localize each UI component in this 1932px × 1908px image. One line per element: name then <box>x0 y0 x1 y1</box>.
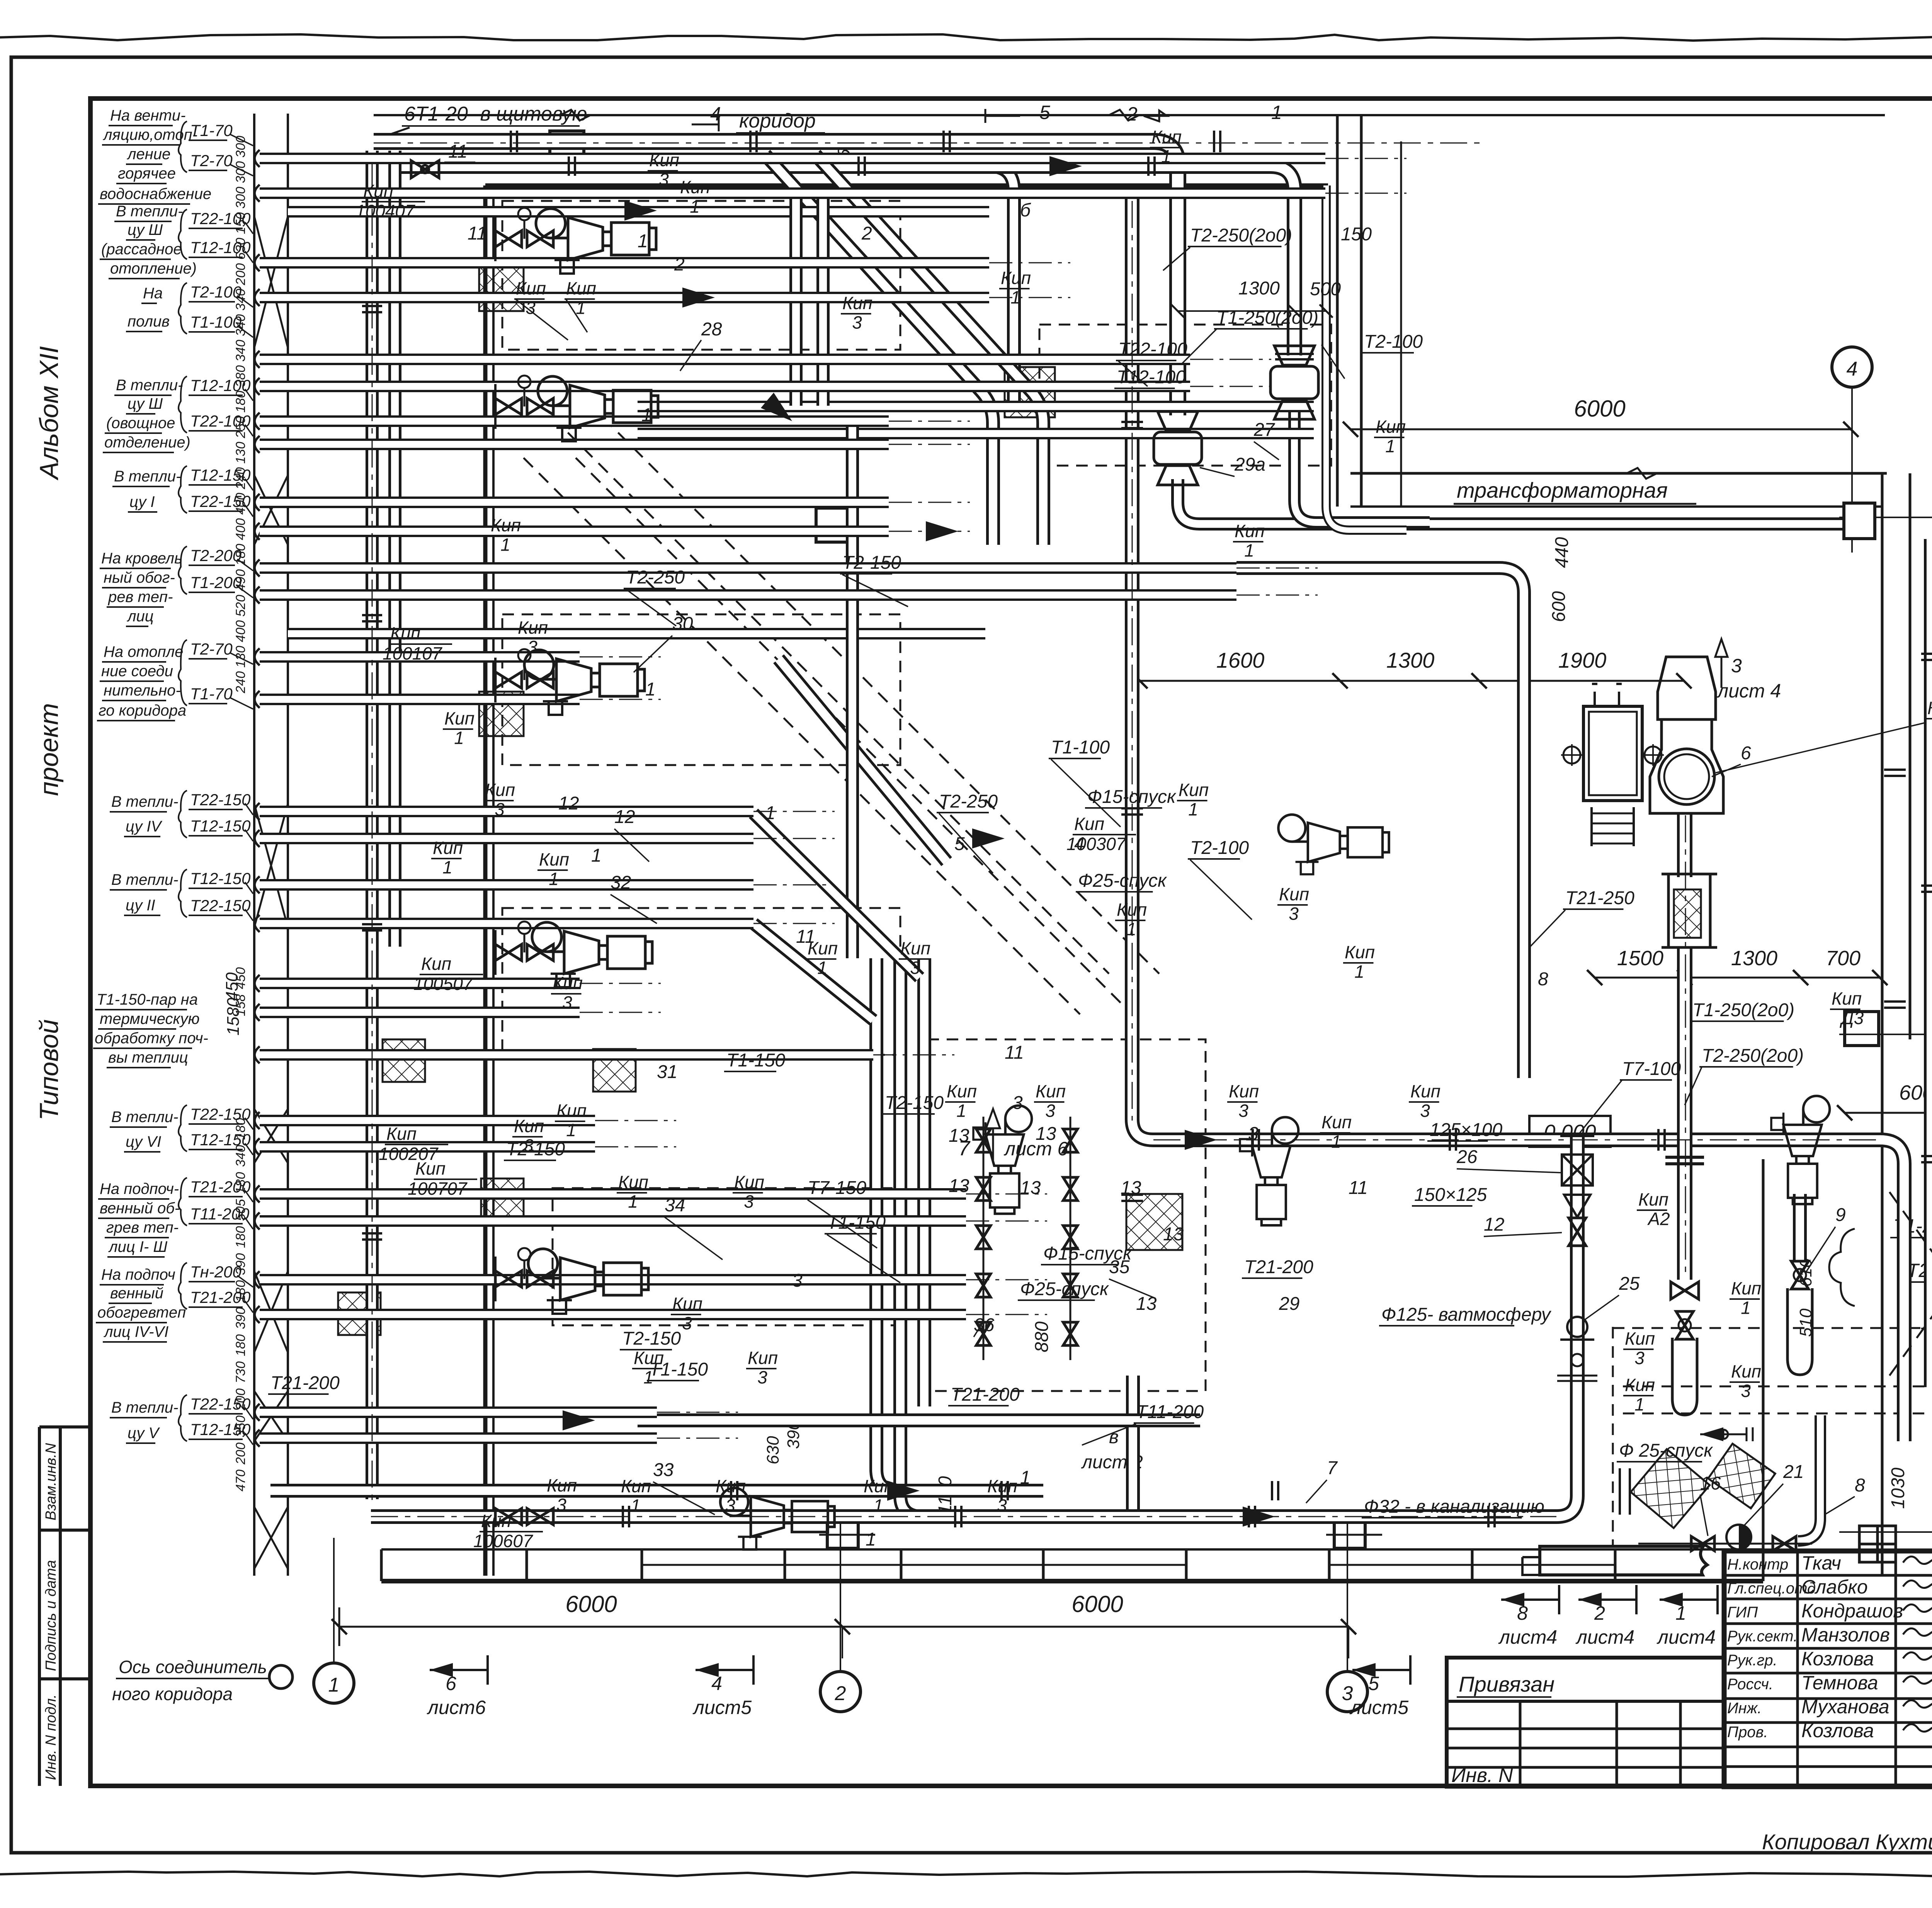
svg-text:1: 1 <box>576 298 586 318</box>
svg-text:Т12-150: Т12-150 <box>190 869 251 888</box>
svg-text:2: 2 <box>674 254 685 275</box>
svg-text:Кип: Кип <box>1036 1081 1066 1101</box>
svg-text:180: 180 <box>233 391 248 413</box>
svg-text:Кип: Кип <box>421 954 451 974</box>
svg-text:Кип: Кип <box>1376 417 1406 437</box>
svg-text:Т1-150-пар на: Т1-150-пар на <box>97 991 198 1008</box>
svg-text:Т7-100: Т7-100 <box>1622 1059 1681 1079</box>
svg-text:1580: 1580 <box>224 998 243 1036</box>
svg-text:Ось соединитель: Ось соединитель <box>119 1657 267 1677</box>
svg-text:отопление): отопление) <box>110 260 197 277</box>
svg-text:340: 340 <box>233 340 248 362</box>
svg-text:Т1-150: Т1-150 <box>649 1359 708 1380</box>
svg-text:Слабко: Слабко <box>1801 1576 1868 1598</box>
svg-text:1: 1 <box>1634 1394 1645 1415</box>
svg-text:Т12-150: Т12-150 <box>190 817 251 835</box>
svg-text:Ф25-спуск: Ф25-спуск <box>1020 1279 1109 1299</box>
svg-text:Манзолов: Манзолов <box>1801 1624 1890 1646</box>
svg-text:Кип: Кип <box>1117 900 1147 920</box>
svg-text:3: 3 <box>910 958 920 978</box>
svg-text:Кип: Кип <box>433 838 463 858</box>
svg-text:Т22-100: Т22-100 <box>1118 339 1187 360</box>
svg-text:горячее: горячее <box>118 165 176 182</box>
svg-text:ляцию,отоп-: ляцию,отоп- <box>103 126 197 143</box>
svg-text:13: 13 <box>949 1126 969 1146</box>
svg-text:3: 3 <box>1420 1101 1430 1121</box>
svg-text:б: б <box>1020 200 1031 221</box>
svg-text:250: 250 <box>233 416 248 439</box>
svg-text:Кип: Кип <box>680 177 710 197</box>
svg-text:880: 880 <box>1032 1321 1052 1352</box>
svg-text:Кип: Кип <box>1345 942 1375 962</box>
svg-text:400: 400 <box>233 620 248 642</box>
svg-text:340: 340 <box>233 314 248 336</box>
svg-text:5: 5 <box>1039 102 1050 123</box>
svg-text:Т12-100: Т12-100 <box>1117 367 1186 388</box>
svg-text:водоснабжение: водоснабжение <box>100 185 211 202</box>
svg-text:35: 35 <box>1109 1257 1130 1277</box>
svg-text:Кип: Кип <box>390 623 420 643</box>
svg-text:12: 12 <box>614 807 635 827</box>
svg-text:Козлова: Козлова <box>1801 1648 1874 1670</box>
svg-text:3: 3 <box>1238 1101 1248 1121</box>
svg-text:125×100: 125×100 <box>1430 1120 1503 1140</box>
svg-text:400: 400 <box>233 493 248 515</box>
svg-text:Ф15-спуск: Ф15-спуск <box>1087 787 1177 807</box>
svg-text:Кип: Кип <box>1832 988 1862 1008</box>
svg-text:Кип: Кип <box>672 1294 702 1314</box>
svg-text:1: 1 <box>1161 146 1171 167</box>
svg-text:100107: 100107 <box>383 643 442 663</box>
svg-text:1: 1 <box>765 803 776 823</box>
svg-text:лист 4: лист 4 <box>1716 680 1781 702</box>
svg-text:Кондрашов: Кондрашов <box>1801 1600 1903 1622</box>
svg-text:Инж.: Инж. <box>1727 1700 1762 1717</box>
svg-text:4: 4 <box>711 1673 722 1694</box>
svg-text:13: 13 <box>1036 1124 1056 1144</box>
svg-text:1: 1 <box>1010 287 1020 308</box>
svg-text:Т2-150: Т2-150 <box>506 1139 565 1160</box>
svg-text:3: 3 <box>997 1496 1007 1516</box>
svg-text:240: 240 <box>233 671 248 694</box>
svg-text:440: 440 <box>1552 537 1572 568</box>
svg-text:31: 31 <box>657 1062 677 1082</box>
svg-text:Кип: Кип <box>947 1081 977 1101</box>
svg-text:11: 11 <box>1005 1042 1024 1063</box>
svg-text:3: 3 <box>556 1495 566 1515</box>
svg-text:ление: ление <box>127 146 170 163</box>
svg-text:Т21-200: Т21-200 <box>1244 1257 1313 1277</box>
svg-text:3: 3 <box>1012 1093 1023 1113</box>
svg-text:Кип: Кип <box>547 1475 577 1495</box>
svg-text:180: 180 <box>233 1280 248 1302</box>
svg-text:лиц IV-VI: лиц IV-VI <box>104 1323 168 1340</box>
svg-text:1: 1 <box>442 857 452 877</box>
svg-text:300: 300 <box>233 136 248 158</box>
svg-text:лист4: лист4 <box>1656 1626 1716 1648</box>
svg-text:390: 390 <box>233 1253 248 1275</box>
svg-text:300: 300 <box>233 187 248 209</box>
svg-text:12: 12 <box>1484 1214 1504 1235</box>
svg-text:Альбом XII: Альбом XII <box>34 346 64 481</box>
svg-text:1: 1 <box>566 1120 576 1140</box>
svg-text:3: 3 <box>1289 904 1299 924</box>
svg-text:Кип: Кип <box>1625 1328 1655 1349</box>
svg-text:2: 2 <box>835 1682 846 1705</box>
svg-text:1: 1 <box>1188 799 1198 820</box>
svg-text:6: 6 <box>446 1673 456 1694</box>
svg-text:130: 130 <box>233 646 248 668</box>
svg-text:200: 200 <box>233 263 248 286</box>
svg-text:25: 25 <box>1619 1274 1640 1294</box>
svg-text:Ф32 - в канализацию: Ф32 - в канализацию <box>1364 1496 1544 1517</box>
svg-text:200: 200 <box>233 1442 248 1465</box>
svg-text:Кип: Кип <box>900 938 930 958</box>
svg-text:Т2-250: Т2-250 <box>939 791 998 812</box>
svg-text:1: 1 <box>1020 1468 1031 1488</box>
svg-text:1030: 1030 <box>1888 1468 1908 1509</box>
svg-text:12: 12 <box>558 793 579 814</box>
svg-text:Кип: Кип <box>481 1511 511 1531</box>
svg-text:3: 3 <box>1741 1381 1751 1401</box>
svg-text:27: 27 <box>1253 420 1276 440</box>
svg-text:ние соеди: ние соеди <box>101 663 173 680</box>
svg-text:Кип: Кип <box>518 617 548 638</box>
svg-text:1: 1 <box>549 869 559 889</box>
svg-text:180: 180 <box>233 1172 248 1194</box>
svg-text:1: 1 <box>641 405 652 425</box>
svg-text:Кип: Кип <box>1229 1081 1259 1101</box>
svg-text:Кип: Кип <box>566 278 596 298</box>
svg-text:Кип: Кип <box>842 293 872 313</box>
svg-text:На: На <box>143 285 163 302</box>
svg-text:Кип: Кип <box>1410 1081 1440 1101</box>
svg-text:33: 33 <box>653 1460 674 1480</box>
svg-text:340: 340 <box>233 289 248 311</box>
svg-text:Кип: Кип <box>1179 780 1209 800</box>
svg-text:Кип: Кип <box>415 1158 446 1178</box>
svg-text:Привязан: Привязан <box>1459 1672 1554 1696</box>
svg-text:рев теп-: рев теп- <box>108 588 173 605</box>
svg-text:1: 1 <box>1126 919 1136 939</box>
svg-text:11: 11 <box>1349 1178 1368 1198</box>
svg-text:470: 470 <box>233 1469 248 1491</box>
svg-text:Кип: Кип <box>649 150 679 170</box>
svg-text:1: 1 <box>638 231 648 252</box>
svg-text:180: 180 <box>233 1226 248 1248</box>
svg-text:А2: А2 <box>1647 1209 1670 1229</box>
svg-text:Т22-150: Т22-150 <box>190 791 251 809</box>
svg-text:цу Ш: цу Ш <box>128 395 163 412</box>
svg-text:Т2-250(2о0): Т2-250(2о0) <box>1702 1046 1804 1066</box>
svg-text:Типовой: Типовой <box>34 1019 64 1121</box>
svg-text:цу VI: цу VI <box>126 1133 161 1150</box>
svg-text:Кип: Кип <box>1625 1375 1655 1395</box>
svg-text:28: 28 <box>701 319 722 340</box>
svg-text:16: 16 <box>1700 1473 1721 1494</box>
svg-text:240: 240 <box>233 467 248 490</box>
svg-text:Т1-150: Т1-150 <box>827 1212 886 1233</box>
svg-text:Кип: Кип <box>716 1476 746 1496</box>
svg-text:150: 150 <box>1341 224 1372 245</box>
svg-text:цу Ш: цу Ш <box>128 221 163 238</box>
svg-text:полив: полив <box>128 313 170 330</box>
svg-text:Взам.инв.N: Взам.инв.N <box>43 1443 59 1520</box>
svg-text:11: 11 <box>796 927 815 947</box>
svg-text:1: 1 <box>628 1192 638 1212</box>
svg-text:13: 13 <box>1020 1178 1041 1198</box>
svg-text:(рассадное: (рассадное <box>101 241 182 258</box>
svg-text:Т21-200: Т21-200 <box>270 1373 340 1393</box>
svg-text:1600: 1600 <box>1216 648 1265 672</box>
svg-text:венный: венный <box>110 1285 163 1302</box>
svg-text:На подпоч: На подпоч <box>101 1266 175 1283</box>
svg-text:Т21-200: Т21-200 <box>951 1384 1020 1405</box>
svg-text:Т7-150: Т7-150 <box>808 1178 866 1198</box>
svg-text:3: 3 <box>1248 1124 1259 1144</box>
svg-text:29а: 29а <box>1234 454 1265 475</box>
svg-text:цу II: цу II <box>126 897 155 914</box>
svg-text:Т1-70: Т1-70 <box>190 121 233 139</box>
svg-text:8: 8 <box>1517 1602 1528 1624</box>
svg-text:1300: 1300 <box>1238 278 1280 299</box>
svg-text:Кип: Кип <box>485 780 515 800</box>
svg-text:2: 2 <box>1594 1602 1605 1624</box>
svg-text:3: 3 <box>725 1496 735 1516</box>
svg-text:Кип: Кип <box>553 973 583 993</box>
svg-text:100507: 100507 <box>413 974 473 994</box>
svg-text:Кип: Кип <box>1279 884 1309 904</box>
svg-text:лиц I- Ш: лиц I- Ш <box>108 1238 167 1255</box>
svg-text:Кип: Кип <box>363 181 393 201</box>
svg-text:6: 6 <box>1741 743 1751 764</box>
svg-text:21: 21 <box>1783 1462 1804 1482</box>
svg-text:3: 3 <box>792 1270 803 1291</box>
svg-text:100707: 100707 <box>408 1178 468 1199</box>
svg-text:грев теп-: грев теп- <box>106 1219 179 1236</box>
svg-text:Т11-200: Т11-200 <box>1136 1402 1204 1422</box>
svg-text:600: 600 <box>1549 591 1569 622</box>
svg-text:На кровель: На кровель <box>101 550 182 567</box>
svg-text:500: 500 <box>1310 279 1341 299</box>
svg-text:В тепли-: В тепли- <box>116 203 183 220</box>
svg-text:1300: 1300 <box>1731 947 1777 970</box>
svg-text:лиц: лиц <box>127 608 154 625</box>
svg-text:6000: 6000 <box>1071 1591 1123 1617</box>
svg-text:34: 34 <box>665 1195 685 1216</box>
svg-text:340: 340 <box>233 1145 248 1167</box>
svg-text:Кип: Кип <box>1151 127 1182 147</box>
svg-text:7: 7 <box>1327 1458 1338 1478</box>
svg-text:13: 13 <box>1136 1294 1157 1314</box>
svg-text:1900: 1900 <box>1558 648 1607 672</box>
svg-text:термическую: термическую <box>100 1010 200 1027</box>
svg-text:Т2-150: Т2-150 <box>622 1328 681 1349</box>
svg-text:8: 8 <box>1538 969 1548 990</box>
svg-text:Инв. N: Инв. N <box>1451 1764 1513 1787</box>
svg-text:630: 630 <box>764 1436 782 1464</box>
svg-text:Кип: Кип <box>621 1476 651 1496</box>
svg-text:6000: 6000 <box>565 1591 617 1617</box>
svg-text:3: 3 <box>852 313 862 333</box>
svg-text:1: 1 <box>1271 102 1282 123</box>
svg-text:Кип: Кип <box>1927 698 1932 718</box>
svg-text:Кип: Кип <box>1235 521 1265 541</box>
svg-text:лист6: лист6 <box>427 1697 486 1718</box>
svg-text:1: 1 <box>866 1529 876 1550</box>
svg-text:ного коридора: ного коридора <box>112 1684 233 1704</box>
svg-text:490: 490 <box>233 569 248 591</box>
svg-text:1: 1 <box>631 1496 641 1516</box>
svg-text:Д3: Д3 <box>1839 1008 1864 1028</box>
svg-text:3: 3 <box>1045 1101 1055 1121</box>
svg-text:1: 1 <box>1675 1602 1686 1624</box>
svg-text:180: 180 <box>233 1334 248 1356</box>
svg-text:Ф25-спуск: Ф25-спуск <box>1078 871 1167 891</box>
svg-text:1: 1 <box>1244 541 1254 561</box>
svg-text:Т1-70: Т1-70 <box>190 685 233 703</box>
svg-text:Кип: Кип <box>1321 1112 1352 1132</box>
svg-text:лист4: лист4 <box>1575 1626 1634 1648</box>
svg-text:3: 3 <box>757 1367 767 1388</box>
svg-text:цу I: цу I <box>129 493 155 510</box>
svg-text:13: 13 <box>1121 1178 1141 1198</box>
svg-text:1: 1 <box>328 1674 340 1696</box>
svg-text:Копировал Кухтинова: Копировал Кухтинова <box>1762 1830 1932 1854</box>
svg-text:трансформаторная: трансформаторная <box>1457 478 1668 502</box>
svg-text:Кип: Кип <box>556 1100 587 1121</box>
svg-text:Т2-70: Т2-70 <box>190 151 233 170</box>
svg-text:9: 9 <box>1835 1205 1846 1225</box>
svg-text:3: 3 <box>682 1313 692 1333</box>
svg-text:Т22-150: Т22-150 <box>190 896 251 915</box>
svg-text:коридор: коридор <box>739 110 816 132</box>
svg-text:100607: 100607 <box>473 1531 533 1551</box>
svg-text:проект: проект <box>34 703 64 796</box>
svg-text:13: 13 <box>949 1176 969 1196</box>
svg-text:Кип: Кип <box>864 1476 894 1496</box>
svg-text:Ткач: Ткач <box>1801 1552 1841 1574</box>
svg-text:В тепли-: В тепли- <box>111 1109 179 1126</box>
svg-text:505: 505 <box>233 1199 248 1221</box>
svg-text:300: 300 <box>233 161 248 183</box>
svg-text:730: 730 <box>233 1361 248 1383</box>
svg-text:Т2-150: Т2-150 <box>885 1093 944 1113</box>
svg-text:Рук.гр.: Рук.гр. <box>1727 1652 1777 1669</box>
svg-text:нительно-: нительно- <box>104 682 181 699</box>
svg-text:380: 380 <box>233 365 248 387</box>
svg-text:13: 13 <box>1163 1224 1184 1245</box>
svg-text:29: 29 <box>1279 1294 1299 1314</box>
svg-text:Т1-150: Т1-150 <box>726 1050 785 1071</box>
svg-text:400: 400 <box>233 518 248 540</box>
svg-text:3: 3 <box>527 637 537 657</box>
svg-text:лист5: лист5 <box>692 1697 752 1718</box>
svg-text:Инв. N подл.: Инв. N подл. <box>43 1694 59 1780</box>
svg-text:150: 150 <box>233 212 248 234</box>
svg-text:2: 2 <box>861 223 872 244</box>
svg-text:150×125: 150×125 <box>1414 1185 1487 1205</box>
svg-text:3: 3 <box>1634 1348 1645 1368</box>
svg-text:3: 3 <box>1731 655 1742 677</box>
svg-text:В тепли-: В тепли- <box>116 377 183 394</box>
svg-text:Кип: Кип <box>444 708 474 728</box>
svg-text:11: 11 <box>448 141 468 162</box>
svg-text:200: 200 <box>233 1388 248 1411</box>
svg-text:Подпись и дата: Подпись и дата <box>43 1560 59 1671</box>
svg-text:обогревтеп: обогревтеп <box>97 1304 186 1321</box>
svg-text:6000: 6000 <box>1574 396 1625 422</box>
svg-text:обработку поч-: обработку поч- <box>95 1030 208 1047</box>
svg-text:350: 350 <box>233 1415 248 1437</box>
svg-text:Темнова: Темнова <box>1801 1672 1878 1694</box>
svg-text:В тепли-: В тепли- <box>111 1399 179 1416</box>
svg-text:1: 1 <box>956 1101 966 1121</box>
svg-text:венный об-: венный об- <box>100 1200 180 1217</box>
svg-text:1: 1 <box>690 197 700 217</box>
svg-text:4: 4 <box>1847 358 1858 380</box>
svg-text:30: 30 <box>672 614 693 634</box>
svg-text:1: 1 <box>873 1496 883 1516</box>
svg-text:1: 1 <box>500 535 510 555</box>
svg-text:го коридора: го коридора <box>99 702 186 719</box>
svg-text:Н.контр: Н.контр <box>1727 1556 1788 1573</box>
svg-text:1: 1 <box>1354 962 1364 982</box>
svg-text:3: 3 <box>562 993 572 1013</box>
svg-text:Кип: Кип <box>491 515 521 535</box>
svg-text:11: 11 <box>468 223 487 244</box>
svg-text:Козлова: Козлова <box>1801 1720 1874 1741</box>
svg-text:8: 8 <box>1855 1475 1865 1496</box>
svg-text:130: 130 <box>233 442 248 464</box>
svg-text:Кип: Кип <box>516 278 546 298</box>
svg-text:Кип: Кип <box>514 1116 544 1136</box>
svg-text:Рук.сект.: Рук.сект. <box>1727 1628 1798 1645</box>
svg-text:На отопле: На отопле <box>104 643 183 660</box>
svg-text:100407: 100407 <box>355 201 415 221</box>
svg-text:лист4: лист4 <box>1498 1626 1557 1648</box>
svg-text:1: 1 <box>1385 436 1395 456</box>
svg-text:Т2-250(2о0): Т2-250(2о0) <box>1190 225 1292 246</box>
svg-text:Ф 25-спуск: Ф 25-спуск <box>1619 1440 1713 1461</box>
svg-text:В тепли-: В тепли- <box>111 871 179 888</box>
svg-text:лист5: лист5 <box>1349 1697 1409 1718</box>
svg-text:180: 180 <box>233 1118 248 1140</box>
svg-text:Т2-70: Т2-70 <box>190 640 233 658</box>
svg-text:1: 1 <box>1741 1298 1751 1318</box>
svg-text:отделение): отделение) <box>104 434 190 451</box>
svg-text:1300: 1300 <box>1386 648 1435 672</box>
svg-text:На подпоч-: На подпоч- <box>100 1180 179 1197</box>
svg-text:390: 390 <box>233 1307 248 1329</box>
svg-text:Т1-250(2о0): Т1-250(2о0) <box>1692 1000 1794 1020</box>
svg-text:3: 3 <box>495 799 505 820</box>
svg-text:Кип: Кип <box>1001 268 1031 288</box>
svg-text:Кип: Кип <box>539 849 569 869</box>
svg-text:В тепли-: В тепли- <box>111 793 179 810</box>
svg-text:Пров.: Пров. <box>1727 1724 1768 1741</box>
svg-text:4: 4 <box>1074 834 1085 854</box>
svg-text:Т2-100: Т2-100 <box>1364 332 1423 352</box>
svg-text:Т2-100: Т2-100 <box>1190 838 1249 858</box>
svg-text:Кип: Кип <box>618 1172 648 1192</box>
svg-text:Кип: Кип <box>987 1476 1017 1496</box>
svg-text:В тепли-: В тепли- <box>114 468 181 485</box>
svg-text:Муханова: Муханова <box>1801 1696 1889 1718</box>
svg-text:Кип: Кип <box>1638 1189 1668 1209</box>
svg-text:цу IV: цу IV <box>126 818 163 835</box>
svg-text:Кип: Кип <box>386 1124 417 1144</box>
